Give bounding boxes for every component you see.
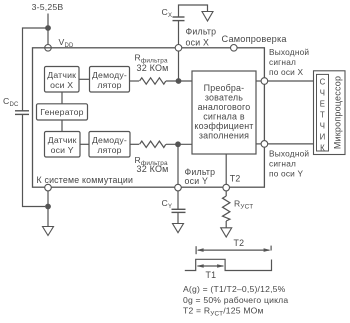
block demodulator X [90, 67, 130, 93]
resistor Rфильтра Y [140, 141, 166, 147]
ground top right [202, 12, 213, 22]
wire demod Y to resistor Y [130, 143, 139, 145]
svg-text:С: С [320, 77, 326, 86]
wire Y output [256, 143, 261, 145]
svg-text:CY: CY [162, 198, 173, 210]
block sensor Y Датчик оси Y [45, 132, 81, 158]
svg-text:Самопроверка: Самопроверка [222, 34, 288, 44]
wire ground node to commutation pin [47, 191, 49, 207]
wire ground node to ground [47, 207, 49, 227]
svg-text:лятор: лятор [97, 145, 121, 155]
ground below RУСТ [221, 228, 232, 237]
block generator Генератор [37, 104, 88, 120]
svg-text:аналогового: аналогового [198, 102, 251, 112]
svg-text:Выходной: Выходной [269, 148, 309, 158]
terminal CX pin [175, 45, 182, 52]
label Фильтр оси Y [185, 167, 216, 186]
svg-text:по оси Y: по оси Y [269, 168, 304, 178]
svg-text:T1: T1 [206, 270, 217, 280]
label Выходной сигнал по оси X [269, 47, 309, 77]
wire sensor Y to demod Y [80, 143, 89, 145]
wire VDD stub [47, 28, 49, 44]
wire demod X to resistor X [130, 80, 140, 82]
svg-text:сигнал: сигнал [269, 158, 296, 168]
block demodulator Y [89, 132, 130, 158]
junction ground node [45, 204, 51, 210]
terminal CY pin [175, 184, 182, 191]
terminal self-test pin [231, 45, 238, 52]
svg-text:RУСТ: RУСТ [234, 199, 253, 211]
svg-text:оси X: оси X [186, 37, 210, 47]
svg-text:T2 = RУСТ/125 МОм: T2 = RУСТ/125 МОм [183, 306, 264, 318]
wire X output [256, 80, 261, 82]
wire generator to sensor Y [61, 120, 63, 132]
svg-text:T2: T2 [230, 174, 241, 184]
capacitor CX [173, 17, 185, 45]
wire supply to CDC branch [23, 28, 49, 111]
waveform T1 dimension [197, 264, 224, 268]
svg-text:Преобра-: Преобра- [204, 83, 245, 93]
block sensor X Датчик оси X [45, 67, 80, 93]
label Фильтр оси X [186, 27, 217, 48]
wire CDC to ground node [23, 114, 46, 206]
svg-text:Датчик: Датчик [48, 135, 77, 145]
capacitor CY [172, 191, 186, 224]
svg-text:оси Y: оси Y [185, 176, 209, 186]
junction X filter node [176, 78, 182, 84]
svg-text:по оси X: по оси X [269, 67, 304, 77]
junction Y filter node [175, 141, 181, 147]
svg-text:Е: Е [320, 99, 325, 108]
terminal commutation pin [45, 184, 52, 191]
terminal T2 pin [223, 184, 230, 191]
svg-text:32 КОм: 32 КОм [137, 63, 169, 73]
svg-text:0g = 50% рабочего цикла: 0g = 50% рабочего цикла [183, 295, 288, 305]
waveform T2 dimension [196, 246, 271, 255]
svg-text:T2: T2 [234, 238, 245, 248]
svg-text:Демоду-: Демоду- [92, 70, 127, 80]
svg-text:К: К [320, 143, 325, 152]
terminal X output pin [261, 78, 268, 85]
wire Y filter node to CY pin [177, 144, 179, 184]
svg-text:оси Y: оси Y [51, 145, 74, 155]
terminal Y output pin [261, 141, 268, 148]
wire X output to counter [268, 80, 314, 82]
svg-text:Генератор: Генератор [40, 107, 83, 117]
wire generator to sensor X [61, 92, 63, 104]
svg-text:32 КОм: 32 КОм [137, 164, 169, 174]
svg-text:К системе коммутации: К системе коммутации [37, 175, 134, 185]
svg-text:A(g) = (T1/T2–0,5)/12,5%: A(g) = (T1/T2–0,5)/12,5% [183, 284, 286, 294]
ground left [43, 227, 54, 236]
label Выходной сигнал по оси Y [269, 148, 309, 178]
svg-text:оси X: оси X [50, 80, 73, 90]
svg-text:CDC: CDC [3, 96, 19, 108]
svg-text:сигнала в: сигнала в [203, 111, 245, 121]
wire converter T2 stub [225, 154, 227, 184]
wire resistor Y to converter [166, 143, 192, 145]
svg-text:Т: Т [320, 110, 325, 119]
counter box СЧЕТЧИК [317, 74, 329, 152]
svg-text:Ч: Ч [320, 121, 325, 130]
resistor RУСТ [223, 191, 230, 228]
svg-text:зователь: зователь [205, 92, 243, 102]
svg-text:Фильтр: Фильтр [186, 27, 217, 37]
svg-text:И: И [320, 132, 326, 141]
wire resistor X to converter [166, 80, 192, 82]
svg-text:заполнения: заполнения [199, 130, 249, 140]
IC outline box [33, 48, 265, 187]
wire X filter node to CX pin [178, 51, 180, 81]
svg-text:3-5,25В: 3-5,25В [32, 2, 64, 12]
wire Y output to counter [268, 143, 314, 145]
svg-text:лятор: лятор [97, 80, 121, 90]
waveform pulse [185, 259, 272, 270]
junction supply node [45, 25, 51, 31]
wire sensor X to demod X [79, 78, 90, 80]
resistor Rфильтра X [140, 78, 166, 84]
svg-text:CX: CX [162, 7, 173, 19]
wire supply drop [47, 14, 49, 29]
svg-text:Демоду-: Демоду- [92, 135, 127, 145]
microprocessor box [314, 71, 346, 155]
block converter Преобразователь [192, 71, 256, 154]
svg-text:коэффициент: коэффициент [194, 121, 253, 131]
wire CX to ground [179, 5, 208, 17]
svg-text:Микропроцессор: Микропроцессор [333, 76, 343, 149]
svg-text:Датчик: Датчик [47, 70, 76, 80]
terminal VDD pin [45, 45, 52, 52]
svg-text:Выходной: Выходной [269, 47, 309, 57]
capacitor CDC [15, 111, 29, 115]
svg-text:Ч: Ч [320, 88, 325, 97]
ground below CY [173, 224, 184, 233]
svg-text:сигнал: сигнал [269, 57, 296, 67]
